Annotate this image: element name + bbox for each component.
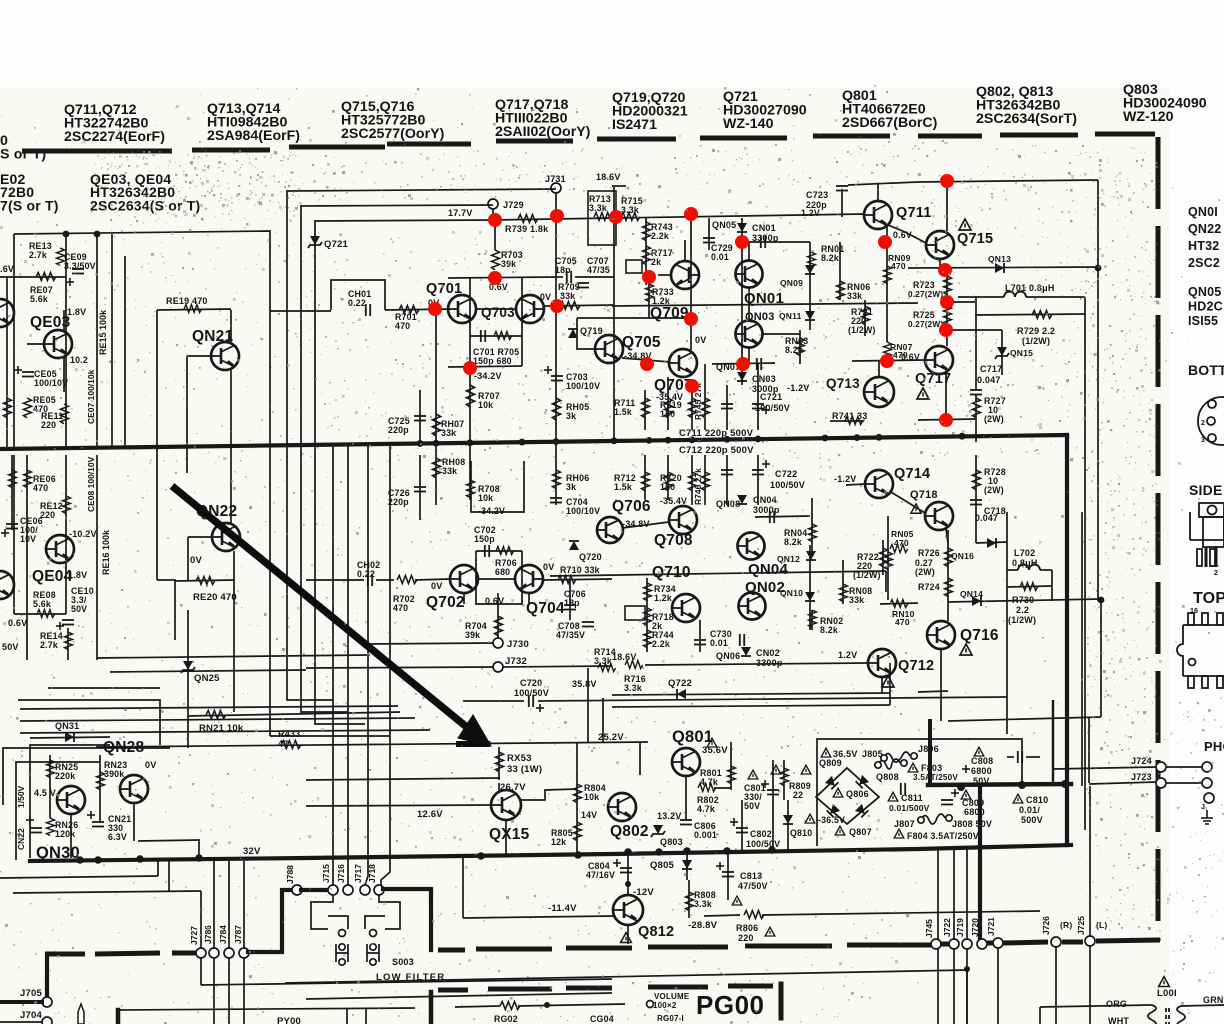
svg-text:50V: 50V <box>2 642 19 652</box>
wire x948 to y719 <box>940 691 942 721</box>
svg-text:18p: 18p <box>564 598 580 608</box>
wire x603 down <box>602 698 604 743</box>
capacitor CE05 100/10V <box>14 366 22 374</box>
junction dot end <box>964 966 970 972</box>
svg-text:0V: 0V <box>543 562 554 572</box>
wire nested lower L3 <box>20 730 430 733</box>
svg-text:Q705: Q705 <box>622 334 661 351</box>
wire Q705 emitter to Q707 <box>622 358 670 362</box>
pencil pointer <box>78 1004 84 1024</box>
svg-text:QN15: QN15 <box>1010 348 1033 358</box>
transistor Q704 <box>515 565 543 593</box>
right edge wires <box>1166 766 1202 768</box>
resistor R709 33k <box>560 302 580 310</box>
svg-text:2SC2274(EorF): 2SC2274(EorF) <box>64 129 165 145</box>
label 36.5V J805 <box>821 748 831 757</box>
wire y672 long <box>110 670 306 672</box>
S003 contacts <box>339 930 346 937</box>
svg-text:10k: 10k <box>584 792 599 802</box>
open circle J719 <box>962 939 972 949</box>
wire x614 left border of center box <box>613 186 615 441</box>
resistor R702 470 <box>397 576 417 584</box>
capacitor on QN07 line <box>712 363 775 364</box>
header underline bars <box>22 134 1155 151</box>
svg-text:0.047: 0.047 <box>977 375 1001 385</box>
zener Q803 <box>651 825 665 837</box>
svg-text:14V: 14V <box>581 810 597 820</box>
open circle J745 <box>931 939 941 949</box>
diode Q810 <box>783 815 793 824</box>
svg-text:100/10V: 100/10V <box>34 378 68 388</box>
svg-text:WZ-140: WZ-140 <box>723 116 774 132</box>
wire x463 stub <box>462 856 464 918</box>
wire Q717 emitter down <box>945 374 947 420</box>
svg-text:QN10: QN10 <box>780 588 803 598</box>
svg-text:CN22: CN22 <box>16 828 26 850</box>
svg-text:R726: R726 <box>918 548 940 558</box>
svg-text:-10.2V: -10.2V <box>69 529 97 539</box>
wire QN22 verticals <box>230 473 232 523</box>
svg-text:50V: 50V <box>71 604 87 614</box>
wire Q709 base <box>658 274 671 276</box>
transistor QX15 <box>491 790 521 820</box>
svg-text:QN14: QN14 <box>960 589 983 599</box>
capacitor C721 100/50V <box>726 385 728 430</box>
wire y691 <box>918 691 948 692</box>
dashed heavy bus left segment <box>45 953 197 954</box>
wire vertical feed J718 <box>381 445 390 885</box>
svg-text:5.6k: 5.6k <box>30 294 48 304</box>
wire y982 <box>201 979 612 985</box>
wire x577 down <box>577 318 595 349</box>
svg-text:2SC2634(SorT): 2SC2634(SorT) <box>976 111 1077 127</box>
package bottom view circle <box>1198 397 1224 445</box>
capacitor C801 330/50V <box>748 770 758 779</box>
svg-text:-34.2V: -34.2V <box>478 506 505 516</box>
svg-text:CN03: CN03 <box>752 374 776 384</box>
svg-text:Q711: Q711 <box>896 205 931 221</box>
resistor RE20 470 <box>175 580 234 581</box>
resistor R801 4.7k <box>730 742 732 790</box>
svg-text:2.2k: 2.2k <box>651 231 669 241</box>
transistor QE02 partial left edge <box>0 299 14 327</box>
svg-text:S003: S003 <box>392 957 414 967</box>
svg-text:3.3k: 3.3k <box>594 656 612 666</box>
svg-text:150p: 150p <box>474 534 495 544</box>
svg-text:C811: C811 <box>901 793 923 803</box>
svg-text:0.8μH: 0.8μH <box>1012 558 1038 568</box>
wire main y216 to Q711 <box>614 214 864 218</box>
wire y891 line <box>13 891 201 893</box>
svg-text:50V: 50V <box>744 801 760 811</box>
wire CN04 cap link <box>755 516 810 517</box>
open circle J720 <box>977 939 987 949</box>
wire y997 <box>306 993 612 999</box>
svg-text:Q704: Q704 <box>526 600 565 617</box>
svg-text:4.7k: 4.7k <box>700 777 718 787</box>
transistor Q701 <box>448 295 476 323</box>
resistor R703 39k <box>494 220 496 250</box>
transistor QN30a <box>57 786 85 814</box>
open circle J705 <box>42 997 52 1007</box>
resistor R734 1.2k <box>646 578 648 652</box>
wire Q701 collector loop box <box>469 278 471 330</box>
svg-text:(1/2W): (1/2W) <box>1008 615 1036 625</box>
svg-text:39k: 39k <box>465 630 480 640</box>
label -36.5V <box>805 814 815 823</box>
wire QX15 base <box>306 805 491 806</box>
resistor R802 4.7k <box>698 784 716 792</box>
svg-text:RN21 10k: RN21 10k <box>199 723 244 734</box>
resistor R711 1.5k <box>644 390 646 430</box>
wire QE03 base <box>27 343 44 345</box>
fuse F804 <box>894 829 904 838</box>
svg-text:CE07 100/10k: CE07 100/10k <box>86 369 96 424</box>
svg-text:C712 220p 500V: C712 220p 500V <box>679 445 754 456</box>
svg-text:R433: R433 <box>278 729 300 739</box>
box QN30 outline <box>3 748 170 805</box>
svg-text:Q803: Q803 <box>660 837 683 847</box>
wire nested L1 from top <box>287 190 333 700</box>
wire Q703 emitter to R709 <box>544 305 614 306</box>
transformer coils <box>1148 1005 1185 1024</box>
wire y1005 stub left <box>1039 1007 1041 1024</box>
wire nested L3 <box>315 220 365 724</box>
svg-text:2SD667(BorC): 2SD667(BorC) <box>842 115 938 131</box>
wire QN03 emitter down <box>748 348 750 364</box>
svg-text:220k: 220k <box>55 771 75 781</box>
resistor R739 1.8k <box>495 218 614 220</box>
wire y930? stub <box>627 925 629 944</box>
wire Q812 base <box>627 884 629 895</box>
resistor R808 3.3k <box>688 880 690 918</box>
svg-text:22: 22 <box>793 790 803 800</box>
svg-text:RG07-I: RG07-I <box>657 1014 684 1023</box>
resistor RH05 3k <box>555 306 557 442</box>
svg-text:33k: 33k <box>560 291 575 301</box>
svg-text:QX15: QX15 <box>489 826 530 843</box>
box PY00 top <box>116 1010 121 1024</box>
svg-text:R710 33k: R710 33k <box>560 565 600 575</box>
wire x1101 down to J723 <box>1100 600 1102 717</box>
fuse F803 <box>908 763 918 772</box>
svg-text:J726: J726 <box>1041 916 1051 935</box>
verticals below connector circles <box>200 957 202 985</box>
wire QX15 emitter <box>505 820 507 855</box>
svg-text:QN09: QN09 <box>780 278 803 288</box>
wire vertical x112 <box>111 234 113 448</box>
svg-text:12k: 12k <box>551 837 566 847</box>
wire x169 stub <box>168 861 170 891</box>
svg-text:J805: J805 <box>862 749 883 759</box>
svg-text:0.01/500V: 0.01/500V <box>889 803 930 813</box>
dashed PG00 top border <box>438 986 773 990</box>
resistor R729 2.2 1/2W <box>975 314 1085 315</box>
svg-text:Q715: Q715 <box>957 231 993 247</box>
wire x890 link <box>889 663 891 705</box>
wire top y186 stub <box>612 185 626 187</box>
wire x97 below bus <box>96 455 98 660</box>
svg-text:3.3k: 3.3k <box>589 203 607 213</box>
wire verticals to J727 group <box>200 891 202 949</box>
svg-text:1/50V: 1/50V <box>16 785 26 808</box>
svg-text:QN31: QN31 <box>55 721 79 731</box>
wire left column below bus <box>13 455 15 614</box>
svg-text:F804 3.5AT/250V: F804 3.5AT/250V <box>907 831 979 841</box>
svg-text:-1.2V: -1.2V <box>834 474 857 484</box>
svg-text:1.2k: 1.2k <box>654 593 672 603</box>
svg-text:.6V: .6V <box>0 264 14 274</box>
wire Q801 block left <box>639 742 641 775</box>
resistor R717 2k <box>643 246 651 265</box>
package side view <box>1199 503 1224 567</box>
svg-text:10V: 10V <box>20 534 36 544</box>
svg-text:47/35V: 47/35V <box>556 630 585 640</box>
svg-text:J784: J784 <box>218 925 228 944</box>
svg-text:Q812: Q812 <box>638 924 674 940</box>
open circle J730 <box>493 638 503 648</box>
bus corner heavy vertical x1067 <box>1065 435 1069 845</box>
svg-text:Q810: Q810 <box>790 828 812 838</box>
box S003 inner <box>328 916 348 929</box>
svg-text:2SC2: 2SC2 <box>1188 256 1220 270</box>
junction x1098 y268 <box>1095 265 1102 272</box>
svg-text:CN01: CN01 <box>752 223 776 233</box>
svg-text:0V: 0V <box>190 555 202 566</box>
svg-text:220: 220 <box>41 420 56 430</box>
svg-text:Q802: Q802 <box>610 823 649 840</box>
capacitor C729 0.01 <box>708 218 710 250</box>
svg-text:J731: J731 <box>545 174 566 184</box>
svg-text:32V: 32V <box>243 846 261 857</box>
heavy PG00 left edge <box>429 992 434 1024</box>
wire x234 down <box>233 580 235 712</box>
wire 17.7V line <box>315 220 495 221</box>
svg-text:J719: J719 <box>955 918 965 937</box>
resistor R743 2.2k <box>645 218 647 285</box>
svg-text:C720: C720 <box>520 678 542 688</box>
dash segment2 <box>987 941 993 946</box>
wire QN21 collector <box>230 310 232 342</box>
resistor R730b 2.2 1/2W line <box>1007 586 1052 587</box>
open circle J727 <box>196 948 206 958</box>
svg-text:J704: J704 <box>20 1010 42 1021</box>
wire nested L2 <box>301 205 348 712</box>
wire nested lower L2 <box>20 718 415 721</box>
svg-text:390k: 390k <box>104 769 124 779</box>
diode Q719 <box>568 329 578 338</box>
capacitor CN22 <box>30 828 42 833</box>
svg-text:3.3k: 3.3k <box>694 899 712 909</box>
dash segment3 <box>1062 940 1083 945</box>
svg-text:6.3V: 6.3V <box>108 832 127 842</box>
dashed border vertical right of Q803 <box>1156 137 1161 941</box>
package upper pins above TOP <box>1190 512 1224 566</box>
svg-text:QN0I: QN0I <box>1188 205 1218 219</box>
svg-text:Q801: Q801 <box>672 728 713 746</box>
svg-text:100/50V: 100/50V <box>770 480 805 490</box>
capacitor lower x727 <box>726 455 728 505</box>
svg-text:3: 3 <box>1201 437 1205 444</box>
resistor R733 1.2k <box>648 277 650 318</box>
transistor QE04 <box>46 535 74 563</box>
svg-text:RG02: RG02 <box>494 1014 518 1024</box>
svg-text:470: 470 <box>895 617 910 627</box>
box PS outline <box>817 739 1022 846</box>
junction dot y601 x1101 <box>1098 597 1105 604</box>
svg-text:Q805: Q805 <box>650 860 675 871</box>
wire low filter output <box>285 970 967 983</box>
svg-text:WZ-120: WZ-120 <box>1123 109 1174 125</box>
vertical x1053 <box>1052 700 1054 784</box>
svg-text:J705: J705 <box>20 988 42 999</box>
package top view DIP <box>1177 613 1224 688</box>
resistor R726 0.27 2W <box>947 530 949 601</box>
heavy link J787 to riser <box>248 890 294 952</box>
svg-text:(1/2W): (1/2W) <box>848 325 876 335</box>
svg-text:0.27(2W): 0.27(2W) <box>908 290 943 299</box>
wire QN01-QN03 link <box>748 288 750 321</box>
wire Q709 collector up <box>684 240 686 261</box>
svg-text:1.5k: 1.5k <box>614 407 632 417</box>
svg-text:220p: 220p <box>388 497 409 507</box>
svg-text:120k: 120k <box>55 829 75 839</box>
svg-text:J722: J722 <box>942 918 952 937</box>
heavy vertical x930 to bus <box>928 721 932 785</box>
svg-text:PY00: PY00 <box>277 1016 301 1024</box>
capacitor C718 <box>975 455 977 543</box>
svg-text:BOTT: BOTT <box>1188 362 1224 378</box>
open circle J787 <box>239 948 249 958</box>
resistor x705 lower <box>704 455 706 505</box>
junction dot <box>625 881 631 887</box>
resistor R804 10k <box>576 742 578 810</box>
svg-text:J725: J725 <box>1076 916 1086 935</box>
svg-text:0.01: 0.01 <box>710 638 728 648</box>
open circle J704 <box>42 1017 52 1024</box>
svg-text:RX53: RX53 <box>507 753 532 764</box>
svg-text:4.5 V: 4.5 V <box>34 788 56 798</box>
heavy corner to J705 <box>45 954 49 998</box>
svg-text:R723: R723 <box>913 280 935 290</box>
resistor RE19 470 <box>157 309 231 310</box>
resistor RN06 33k <box>839 242 841 300</box>
capacitor C704 100/10V <box>550 498 562 503</box>
svg-text:0V: 0V <box>540 292 551 302</box>
warning triangle L001 <box>1159 977 1170 987</box>
capacitor C810 0.01/500V <box>1013 794 1023 803</box>
svg-text:SIDE: SIDE <box>1189 482 1222 498</box>
svg-text:QN13: QN13 <box>988 254 1011 264</box>
wire QN03 emitter <box>763 333 800 335</box>
transistor Q801 <box>672 748 700 776</box>
svg-text:J808 50V: J808 50V <box>952 819 992 829</box>
wire QE03 collector <box>63 310 65 330</box>
svg-text:1.8V: 1.8V <box>68 570 87 580</box>
svg-text:QN11: QN11 <box>779 311 802 321</box>
svg-text:Q703: Q703 <box>481 305 515 320</box>
capacitor C802 100/50V <box>741 800 743 850</box>
svg-text:J715: J715 <box>321 864 331 883</box>
open circle J786 <box>209 948 219 958</box>
svg-text:WHT: WHT <box>1108 1016 1129 1024</box>
wire QN21 base <box>187 355 211 357</box>
svg-text:QN06: QN06 <box>716 651 740 661</box>
wire y745 long <box>96 742 648 747</box>
wire x1090 down <box>1089 786 1091 937</box>
wire nested lower L1 <box>20 706 398 709</box>
svg-text:Q808: Q808 <box>876 772 899 782</box>
open circle J715 <box>328 885 338 895</box>
svg-text:J718: J718 <box>367 864 377 883</box>
resistor R708 10k <box>469 443 471 500</box>
wire Q718 emitter <box>946 529 948 543</box>
capacitor C811 0.01/500V <box>901 783 905 795</box>
heavy link J788 to J715 <box>301 888 329 892</box>
open circle volume <box>647 1001 654 1008</box>
wire left border <box>13 234 15 448</box>
wire C705 leads <box>556 276 563 278</box>
wire J729 lead <box>492 208 494 220</box>
wire J730 line <box>370 643 493 644</box>
open circle J716 <box>343 885 353 895</box>
svg-text:CE08 100/10V: CE08 100/10V <box>86 456 96 512</box>
resistor R701 470 <box>399 306 419 314</box>
svg-text:47/50V: 47/50V <box>738 881 768 891</box>
svg-text:10k: 10k <box>478 493 493 503</box>
resistor R720 150 <box>667 455 669 500</box>
svg-text:C808: C808 <box>971 756 993 766</box>
wire between Q702 Q704 <box>478 578 515 580</box>
svg-text:2.7k: 2.7k <box>29 250 47 260</box>
svg-text:ORG: ORG <box>1106 999 1127 1009</box>
bus dots lower <box>76 856 84 864</box>
wire top right y181 <box>918 180 1098 182</box>
svg-text:RE15 100k: RE15 100k <box>98 309 108 355</box>
svg-text:J720: J720 <box>970 918 980 937</box>
svg-text:VOLUME: VOLUME <box>654 992 690 1001</box>
svg-text:C802: C802 <box>750 829 772 839</box>
wires bottom stubs <box>346 1008 348 1024</box>
open circle J784 <box>224 948 234 958</box>
svg-text:QN05: QN05 <box>1188 285 1221 299</box>
svg-text:Q718: Q718 <box>910 489 938 501</box>
resistor R806 220 <box>704 915 740 916</box>
resistor R724 0.27 2W <box>945 578 953 597</box>
svg-text:QN16: QN16 <box>951 551 974 561</box>
wire vertical feed J715 <box>332 446 334 885</box>
wire x556 J731 down <box>555 192 557 306</box>
trimmer box <box>626 260 642 273</box>
wire x947 Q715 top <box>946 181 948 231</box>
wire long y304 rail <box>612 303 918 306</box>
svg-text:Q706: Q706 <box>612 498 651 515</box>
open circle J729 <box>488 199 498 209</box>
wire QN21 emitter down <box>230 370 232 473</box>
wire x27 below bus <box>26 455 28 660</box>
svg-text:1.2V: 1.2V <box>838 650 857 660</box>
svg-text:5.6k: 5.6k <box>33 599 51 609</box>
wire x188 QN25 to QN28 box <box>187 716 189 748</box>
svg-text:Q713: Q713 <box>826 376 860 391</box>
resistor R744 2.2k <box>644 630 652 648</box>
bridge rectifier Q806 <box>816 768 879 824</box>
resistor RE05 470 <box>24 398 32 418</box>
svg-text:Q702: Q702 <box>426 594 465 611</box>
svg-text:C717: C717 <box>980 364 1002 374</box>
svg-text:ISI55: ISI55 <box>1188 314 1218 328</box>
svg-text:QN12: QN12 <box>777 554 800 564</box>
